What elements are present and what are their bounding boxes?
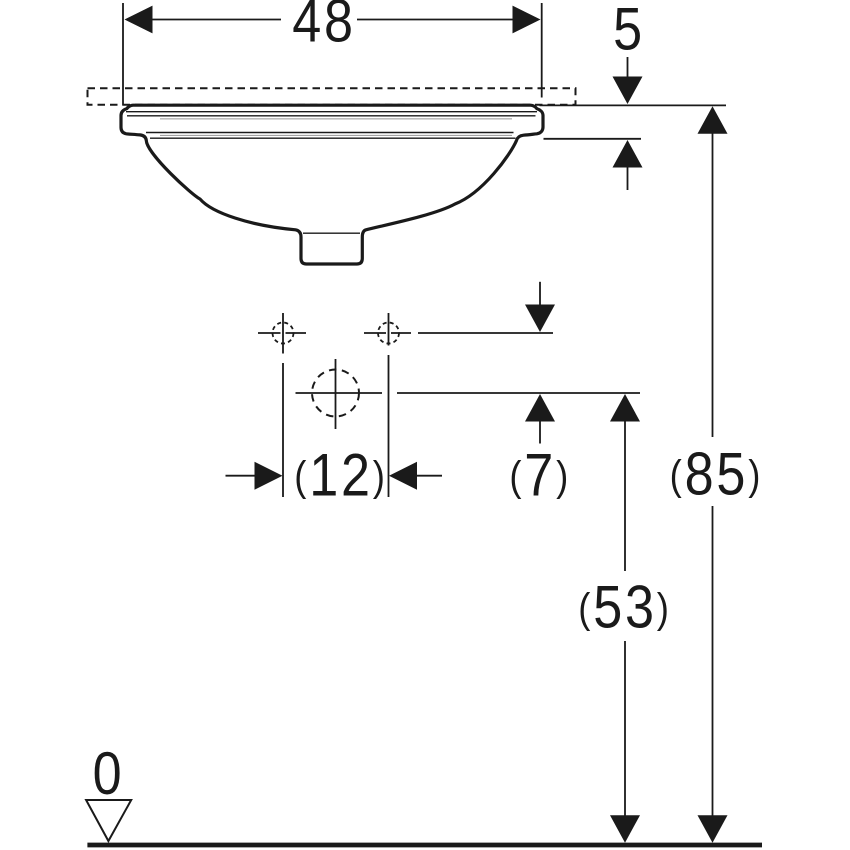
svg-text:(85): (85): [670, 440, 764, 507]
dimension 48 line right segment: [357, 19, 513, 21]
dimension 5 upper stem: [627, 57, 629, 80]
right tap hole centerline horizontal: [364, 332, 411, 334]
dimension 48 arrow left: [125, 6, 153, 34]
basin profile outline: [121, 105, 543, 264]
datum triangle: [86, 800, 131, 841]
dimension (53) lower stem: [624, 641, 626, 817]
svg-text:5: 5: [613, 0, 645, 62]
dimension (7) lower stem: [539, 420, 541, 444]
left tap hole centerline vertical: [282, 313, 284, 497]
dimension 48 extension line left: [122, 3, 124, 106]
dimension 48 arrow right: [513, 6, 541, 34]
dimension (7) label: [509, 441, 571, 508]
dimension (7) down arrow: [525, 305, 555, 333]
rim top reference line: [540, 104, 727, 106]
dimension 5 down arrow: [613, 77, 643, 105]
dimension 48 label: [292, 0, 356, 54]
dimension (53) label: [578, 573, 672, 640]
dimension 48 extension line right: [541, 3, 543, 98]
rim faint contour line E: [160, 118, 512, 120]
rim inner thin line B: [127, 115, 536, 117]
dimension 5 lower stem: [627, 165, 629, 190]
drain centerline horizontal: [296, 392, 383, 394]
dimension (7) upper stem: [539, 282, 541, 306]
right tap hole centerline vertical: [388, 313, 390, 497]
right tap hole dashed circle: [378, 323, 399, 344]
dimension (53) up arrow: [610, 394, 640, 422]
floor baseline: [87, 843, 762, 848]
drain opening thin line: [303, 232, 360, 234]
dimension (53) down arrow: [610, 815, 640, 843]
svg-text:(53): (53): [578, 573, 672, 640]
tap level leader line: [418, 332, 553, 334]
dimension (7) up arrow: [525, 394, 555, 422]
rim underside reference line: [544, 138, 642, 140]
svg-text:0: 0: [93, 740, 125, 807]
dimension (85) up arrow: [698, 106, 728, 134]
dimension (12) left arrow: [255, 462, 283, 490]
dimension (12) label: [294, 441, 388, 508]
left tap hole dashed circle: [273, 323, 294, 344]
worktop cutout dashed rectangle: [88, 88, 576, 105]
dimension (85) upper stem: [712, 132, 714, 437]
dimension 48 line left segment: [151, 19, 281, 21]
drain level leader line: [397, 392, 640, 394]
left tap hole centerline horizontal: [258, 332, 306, 334]
rim faint contour line F: [160, 134, 512, 136]
drain centerline vertical: [335, 359, 337, 429]
dimension (12) left leader: [226, 475, 257, 477]
rim inner thin line D: [150, 137, 516, 139]
dimension (12) right leader: [416, 475, 442, 477]
datum label 0: [93, 740, 125, 807]
dimension (85) down arrow: [698, 815, 728, 843]
svg-text:48: 48: [292, 0, 356, 54]
dimension 5 label: [613, 0, 645, 62]
svg-text:(7): (7): [509, 441, 571, 508]
rim inner thin line C: [146, 132, 514, 134]
dimension (53) upper stem: [624, 420, 626, 571]
svg-text:(12): (12): [294, 441, 388, 508]
rim inner thin line A: [126, 111, 537, 113]
dimension 5 up arrow: [613, 140, 643, 168]
dimension (85) lower stem: [712, 506, 714, 817]
dimension (12) right arrow: [389, 462, 417, 490]
dimension (85) label: [670, 440, 764, 507]
drain dashed circle: [312, 370, 359, 417]
